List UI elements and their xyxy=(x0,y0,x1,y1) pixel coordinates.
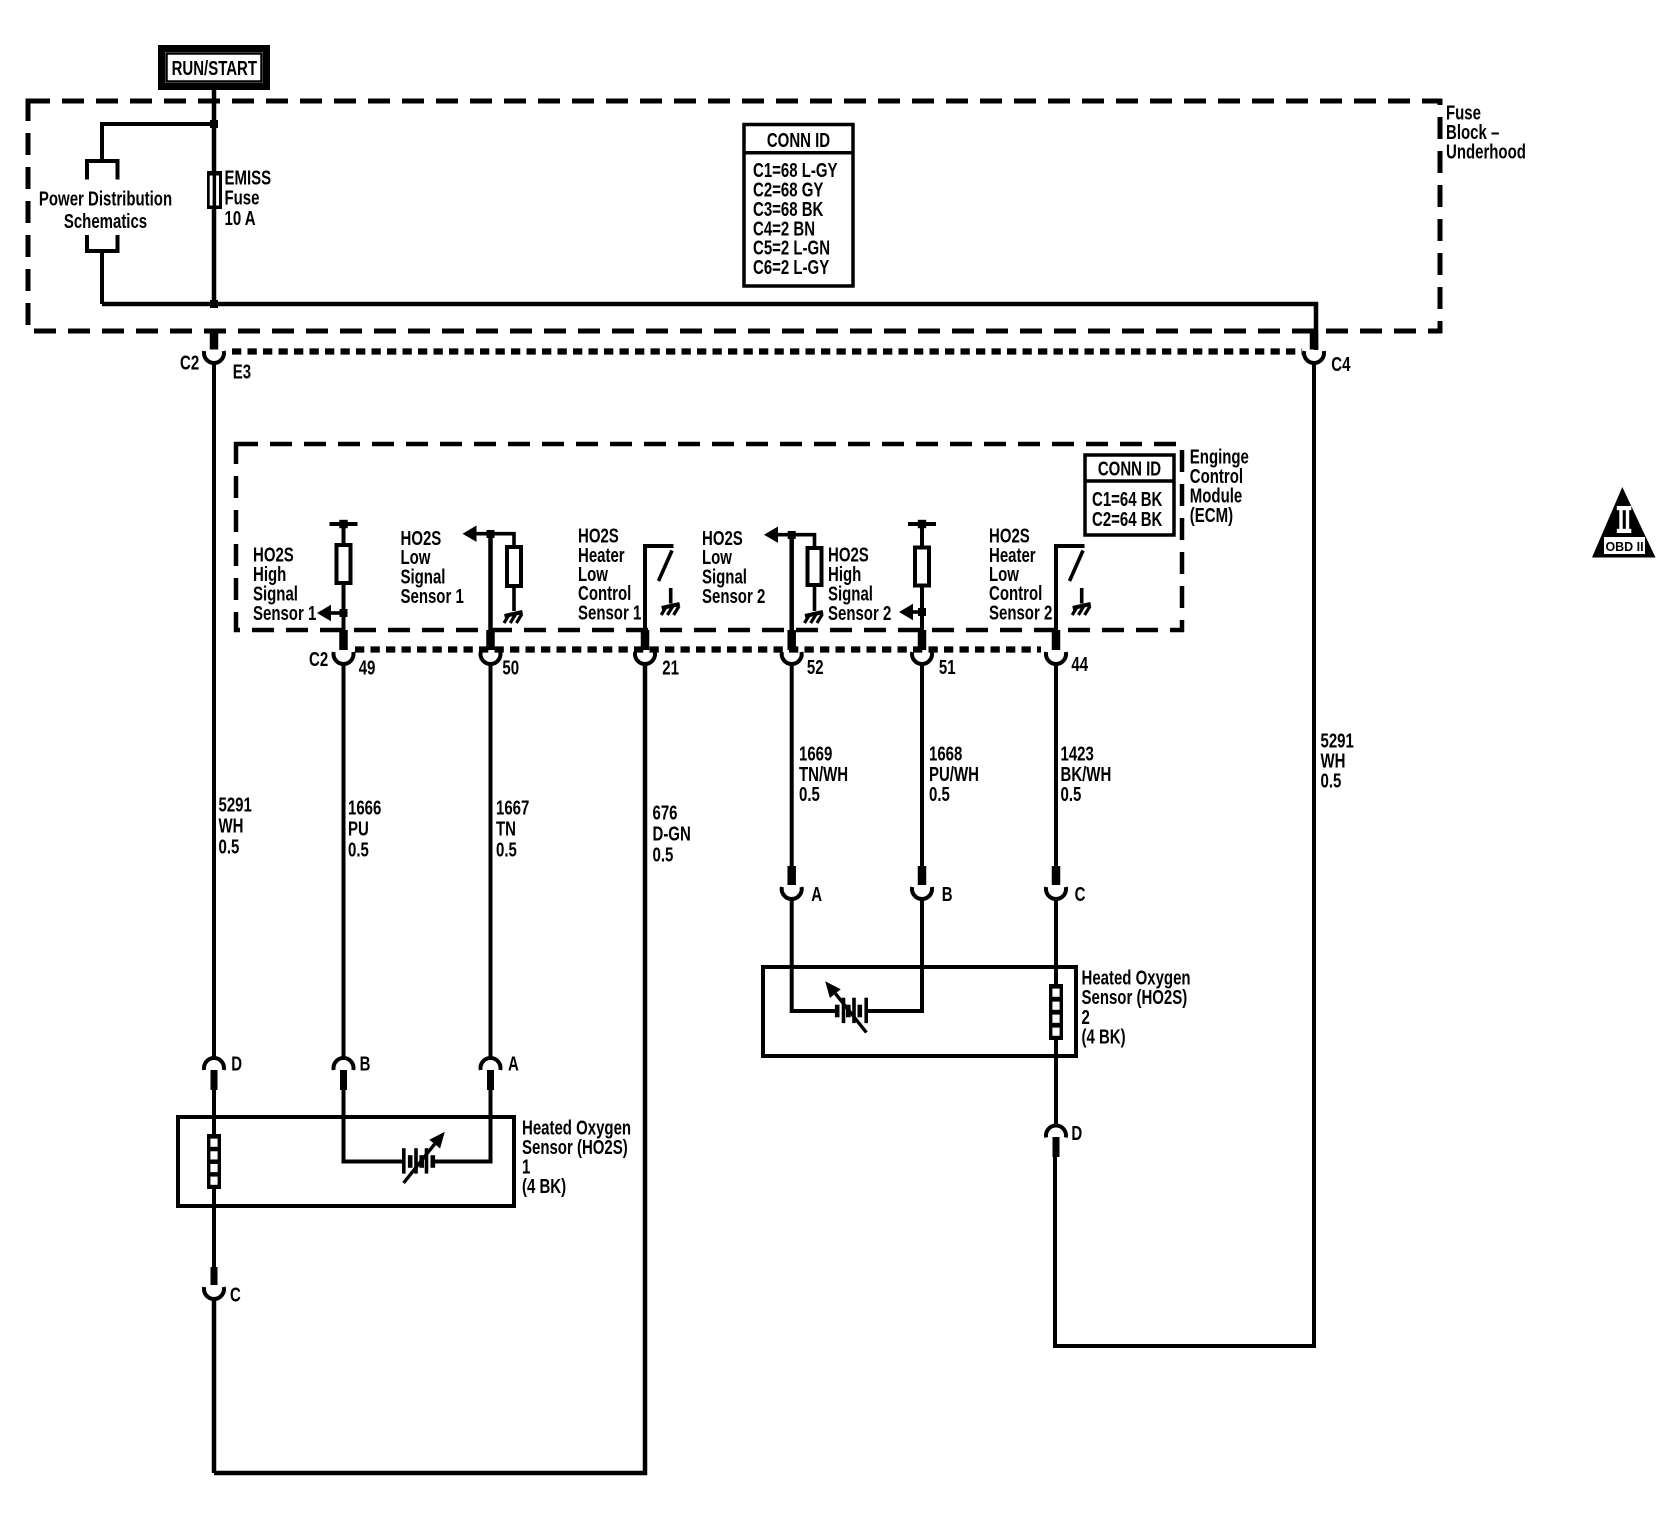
svg-text:49: 49 xyxy=(359,656,376,679)
pin 51 connector xyxy=(912,630,932,664)
node feed bus junction xyxy=(210,300,218,308)
svg-text:D: D xyxy=(231,1052,242,1075)
signal arrow low sensor 2 xyxy=(764,527,778,543)
power feed RUN/START box xyxy=(162,49,267,87)
connector A sensor 2 xyxy=(782,866,802,899)
switch heater low control sensor 2 xyxy=(1054,546,1091,630)
connector A sensor 1 xyxy=(480,1058,500,1090)
wire 1666 PU pin 49 to sensor1 B xyxy=(342,665,346,1058)
wire arrow junction resistor branch 52 xyxy=(777,535,815,549)
svg-text:A: A xyxy=(811,883,822,906)
svg-text:21: 21 xyxy=(662,656,679,679)
resistor HO2S high signal 1 xyxy=(337,545,351,583)
pin 21 connector xyxy=(635,630,655,664)
wire fuse output xyxy=(212,209,217,306)
node junction arrow 49 xyxy=(340,609,348,617)
wire sensor1 C return down xyxy=(212,1300,217,1473)
engine control module dashed box xyxy=(236,444,1182,630)
switch heater low control sensor 1 xyxy=(643,546,680,630)
connector D sensor 2 xyxy=(1046,1126,1066,1157)
wire resistor 50 to ground xyxy=(512,586,516,611)
node junction feed xyxy=(210,120,218,128)
svg-text:B: B xyxy=(360,1052,371,1075)
wire resistor to pin 49 xyxy=(342,583,346,630)
connector C4 xyxy=(1304,331,1324,363)
wire arrow junction resistor branch 50 xyxy=(475,534,514,547)
svg-text:RUN/START: RUN/START xyxy=(172,57,258,80)
ground internal ECM circuit 50 xyxy=(505,612,523,616)
OBD II symbol xyxy=(1592,487,1656,558)
connector strip 4BK sensor 2 xyxy=(1049,984,1063,1040)
power distribution schematics reference bracket xyxy=(87,161,118,304)
connector D sensor 1 xyxy=(204,1058,224,1090)
svg-text:44: 44 xyxy=(1071,653,1088,676)
svg-text:CONN ID: CONN ID xyxy=(1098,457,1161,480)
svg-text:52: 52 xyxy=(807,656,824,679)
ground internal ECM circuit 52 xyxy=(805,612,823,616)
svg-text:C2: C2 xyxy=(309,648,328,671)
node junction 52 xyxy=(788,531,796,539)
wire junction to pin 52 xyxy=(789,535,794,630)
connector row ECM dotted line xyxy=(355,646,1041,652)
connector C2 pin E3 xyxy=(204,331,224,363)
wire feed bus xyxy=(102,304,1316,350)
svg-text:OBD II: OBD II xyxy=(1605,539,1643,554)
wire 1667 TN pin 50 to sensor1 A xyxy=(489,665,493,1058)
svg-text:CONN ID: CONN ID xyxy=(767,129,830,152)
pin 52 connector xyxy=(782,630,802,664)
wire from RUN/START into fuse block xyxy=(212,88,217,126)
svg-text:C: C xyxy=(230,1283,241,1306)
voltage tap node circuit 49 xyxy=(330,522,358,526)
pin 44 connector xyxy=(1046,630,1066,664)
connector C sensor 2 xyxy=(1046,866,1066,899)
wire sensor2 A to heater xyxy=(792,900,836,1011)
connector strip 4BK sensor 1 xyxy=(207,1134,221,1189)
fuse EMISS 10A xyxy=(207,171,222,209)
wire sensor2 C through connector strip xyxy=(1054,900,1058,1126)
wire 1668 PU/WH pin 51 to sensor2 B xyxy=(920,665,924,866)
fuse block CONN ID table xyxy=(744,125,853,287)
svg-text:D: D xyxy=(1071,1122,1082,1145)
wire 5291 WH right xyxy=(1055,364,1314,1346)
svg-text:C1=64 BKC2=64 BK: C1=64 BKC2=64 BK xyxy=(1092,488,1163,531)
wire tap to resistor xyxy=(342,524,346,546)
heated oxygen sensor 1 box xyxy=(178,1117,514,1206)
svg-text:B: B xyxy=(942,883,953,906)
wire sensor2 B to heater xyxy=(868,900,922,1011)
svg-text:50: 50 xyxy=(502,656,519,679)
svg-text:C4: C4 xyxy=(1331,353,1350,376)
wire junction to pin 50 xyxy=(488,534,493,630)
fuse block underhood dashed box xyxy=(28,101,1440,331)
pin 49 connector xyxy=(333,630,353,664)
wire feed to fuse xyxy=(212,124,217,172)
heated oxygen sensor 2 box xyxy=(763,967,1076,1056)
ECM CONN ID table xyxy=(1085,455,1174,535)
svg-text:51: 51 xyxy=(939,656,956,679)
svg-text:C2: C2 xyxy=(180,351,199,374)
signal arrow to sensor 2 high xyxy=(899,604,922,620)
voltage tap node circuit 51 xyxy=(908,522,936,526)
heater element sensor 2 xyxy=(825,981,866,1032)
connector C sensor 1 bottom xyxy=(204,1267,224,1299)
node junction arrow 51 xyxy=(918,608,926,616)
heater element sensor 1 xyxy=(404,1132,445,1183)
wire resistor to pin 51 xyxy=(920,586,924,631)
pin 50 connector xyxy=(480,630,500,664)
connector B sensor 2 xyxy=(912,866,932,899)
wire 5291 WH left xyxy=(212,364,216,1058)
wire tap to resistor 51 xyxy=(920,524,924,548)
wire branch to power distribution xyxy=(102,124,214,161)
wire 676 D-GN pin 21 heater control 1 xyxy=(214,665,645,1473)
svg-text:C: C xyxy=(1075,883,1086,906)
connector row fuse block dotted line xyxy=(232,348,1302,354)
resistor HO2S low signal 2 xyxy=(808,548,822,585)
wire sensor1 D through strip xyxy=(212,1090,216,1267)
svg-text:E3: E3 xyxy=(233,360,251,383)
wire sensor1 B to heater xyxy=(344,1090,403,1162)
resistor HO2S high signal 2 xyxy=(915,548,929,586)
wire resistor 52 to ground xyxy=(813,585,817,611)
svg-text:A: A xyxy=(508,1052,519,1075)
wire 1669 TN/WH pin 52 to sensor2 A xyxy=(790,665,794,866)
resistor HO2S low signal 1 xyxy=(507,547,521,586)
node junction 50 xyxy=(487,530,495,538)
wire 1423 BK/WH pin 44 to sensor2 C xyxy=(1054,665,1058,866)
connector B sensor 1 xyxy=(333,1058,353,1090)
signal arrow to sensor 1 high xyxy=(317,605,344,621)
wire sensor1 A to heater xyxy=(434,1090,491,1162)
signal arrow low sensor 1 xyxy=(463,526,477,542)
